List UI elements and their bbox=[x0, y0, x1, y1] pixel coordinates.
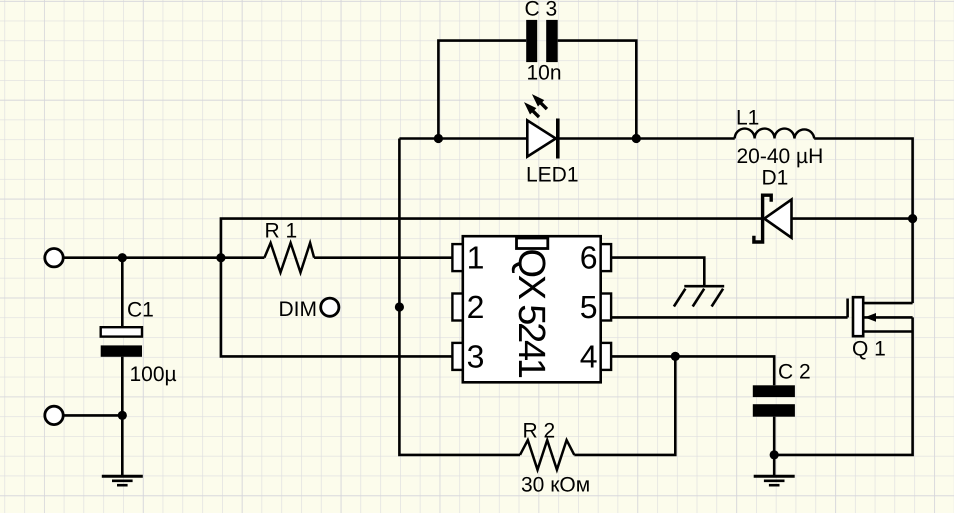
wire Q1 body stub bbox=[863, 316, 912, 319]
wire node A riser / pin 3 feed / top rail to D1 cathode bbox=[221, 219, 761, 357]
wire R2 right to pin-4 junction riser bbox=[574, 356, 675, 455]
svg-text:C 3: C 3 bbox=[525, 0, 558, 21]
svg-text:5: 5 bbox=[580, 289, 598, 325]
svg-text:100µ: 100µ bbox=[130, 363, 177, 386]
wire C3 junction to L1 left bbox=[636, 137, 734, 140]
svg-text:DIM: DIM bbox=[279, 298, 318, 321]
capacitor C2 bbox=[753, 385, 795, 416]
wire C3 left drop bbox=[438, 41, 526, 139]
svg-text:R 2: R 2 bbox=[523, 419, 556, 442]
capacitor C1 (polarized) bbox=[101, 327, 142, 357]
svg-text:L1: L1 bbox=[736, 106, 759, 129]
wire LED cathode to C3 junction bbox=[560, 137, 637, 140]
svg-text:1: 1 bbox=[467, 240, 485, 276]
diode D1 (Schottky) bbox=[754, 195, 792, 242]
svg-text:30 кОм: 30 кОм bbox=[521, 473, 590, 496]
wire C3 right drop bbox=[558, 41, 637, 139]
wire Q1 drain stub bbox=[863, 302, 912, 305]
wire D1 anode to right rail down to Q1 drain bbox=[792, 219, 913, 304]
svg-text:D1: D1 bbox=[762, 167, 789, 190]
svg-text:C 2: C 2 bbox=[778, 360, 811, 383]
junction D1 / L1 / drain bbox=[908, 214, 917, 223]
wire pin 6 to chassis ground bbox=[611, 258, 704, 287]
resistor R2 bbox=[520, 440, 574, 470]
junction C3 right bbox=[632, 134, 641, 143]
svg-text:4: 4 bbox=[580, 338, 598, 374]
wire C1 bottom lead to ground bbox=[121, 357, 124, 476]
svg-text:10n: 10n bbox=[527, 62, 562, 85]
wire pin 5 to Q1 gate bbox=[611, 316, 848, 319]
junction DIM / pin 2 bbox=[395, 302, 404, 311]
svg-text:20-40 µH: 20-40 µH bbox=[737, 145, 824, 168]
ground at C1 bbox=[102, 476, 143, 485]
svg-text:R 1: R 1 bbox=[265, 219, 298, 242]
wire bottom terminal to C1 column bbox=[63, 414, 122, 417]
svg-text:LED1: LED1 bbox=[526, 163, 579, 186]
input terminal + bbox=[45, 249, 63, 267]
svg-text:3: 3 bbox=[467, 338, 485, 374]
junction bottom terminal bbox=[118, 411, 127, 420]
svg-text:Q 1: Q 1 bbox=[852, 338, 886, 361]
wire C2 node to Q1 source rail bbox=[774, 317, 912, 455]
wire R1 right to pin 1 bbox=[314, 256, 452, 259]
wire Q1 source stub bbox=[863, 330, 912, 333]
IC U1 pin pads bbox=[452, 244, 611, 370]
svg-text:QX 5241: QX 5241 bbox=[510, 249, 552, 380]
capacitor C3 bbox=[526, 20, 558, 62]
wire L1 right to right rail top bbox=[814, 139, 912, 219]
junction C1 top bbox=[118, 253, 127, 262]
input terminal - bbox=[45, 406, 63, 424]
junction pin 4 / R2 bbox=[671, 352, 680, 361]
resistor R1 bbox=[264, 243, 314, 273]
svg-text:2: 2 bbox=[467, 289, 485, 325]
wire node A to R1 left bbox=[221, 256, 265, 259]
wire C1 top lead bbox=[121, 258, 124, 328]
wire pin 4 to C2 top bbox=[611, 356, 774, 385]
chassis ground at pin 6 bbox=[674, 286, 724, 306]
junction C3 left bbox=[434, 134, 443, 143]
svg-text:6: 6 bbox=[580, 240, 598, 276]
junction node A bbox=[216, 253, 225, 262]
svg-text:C1: C1 bbox=[127, 299, 154, 322]
IC U1 QX5241 body bbox=[463, 236, 601, 382]
wire C1 node to node A bbox=[122, 256, 221, 259]
wire input terminal to C1 node bbox=[63, 256, 122, 259]
transistor Q1 (MOSFET) bbox=[848, 297, 876, 336]
junction C2 / ground bbox=[770, 450, 779, 459]
wire C2 bottom to ground bbox=[773, 417, 776, 476]
DIM port circle bbox=[321, 298, 339, 316]
wire LED column: LED row down to R2 left bbox=[399, 139, 520, 455]
inductor L1 bbox=[735, 129, 815, 139]
wire LED row left segment bbox=[399, 137, 527, 140]
LED LED1 bbox=[524, 94, 558, 158]
ground at C2 bbox=[754, 476, 795, 485]
